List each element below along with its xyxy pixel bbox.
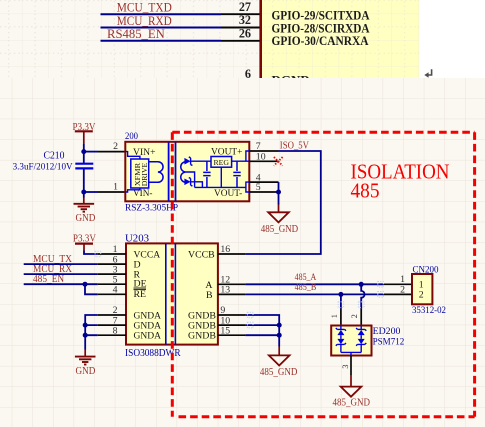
svg-text:VOUT-: VOUT- (214, 188, 242, 199)
TVS pin 3 line (350, 356, 352, 376)
net marker TVS pin1 end (338, 302, 344, 308)
TVS diode ED200 body (331, 326, 371, 356)
svg-text:10: 10 (256, 152, 266, 163)
svg-text:REG: REG (214, 158, 230, 167)
no-ERC cross on pin 10 (274, 157, 283, 166)
svg-text:MCU_TXD: MCU_TXD (117, 0, 172, 14)
wire MCU_TXD (101, 13, 222, 15)
top sheet grid (0, 0, 419, 78)
pin 8 line GNDA (98, 334, 126, 336)
svg-text:1: 1 (113, 182, 118, 193)
ground GND (capacitor branch) (74, 192, 96, 224)
wire P3.3V to junction (83, 144, 85, 152)
white document page margin top-right (419, 0, 485, 78)
transformer core isolation lines (168, 142, 170, 201)
DC-DC converter U200 body (125, 142, 249, 202)
junction node GNDA pin8 (83, 333, 88, 338)
svg-text:4: 4 (113, 285, 118, 296)
svg-text:PSM712: PSM712 (373, 336, 405, 347)
pin 15 line GNDB (218, 334, 246, 336)
pin 32 line (221, 27, 260, 29)
svg-text:RSZ-3.305HP: RSZ-3.305HP (125, 203, 179, 214)
svg-text:GND: GND (76, 213, 96, 224)
rectifier diode D2 (184, 178, 192, 187)
pin 6 line D (98, 263, 126, 265)
wire GNDB bus (245, 315, 279, 347)
wire MCU_RXD (101, 27, 222, 29)
U203 body (126, 243, 218, 344)
svg-text:GND: GND (76, 366, 96, 377)
svg-text:GPIO-30/CANRXA: GPIO-30/CANRXA (272, 33, 370, 48)
MCU IC left border (259, 0, 262, 78)
MCU IC yellow body fragment (262, 0, 419, 78)
power port P3.3V (capacitor branch) (73, 122, 96, 144)
transformer secondary winding (181, 162, 186, 183)
TVS internal zener pair left (336, 326, 346, 353)
svg-text:485_GND: 485_GND (260, 367, 298, 378)
svg-text:GNDB: GNDB (188, 331, 216, 342)
svg-text:35312-02: 35312-02 (412, 305, 446, 316)
pin 16 line VCCB (218, 253, 246, 255)
TVS pin 2 line (360, 309, 362, 326)
svg-text:26: 26 (239, 26, 251, 40)
junction node 485_EN split (83, 282, 88, 287)
svg-text:200: 200 (125, 131, 138, 141)
power port 485_GND (GNDB) (260, 347, 298, 379)
pin 7 line VOUT+ (249, 150, 278, 152)
wire down to 485_GND (278, 192, 280, 205)
pin 13 line B (218, 293, 246, 295)
svg-text:VCCB: VCCB (188, 250, 215, 261)
TVS internal bus (341, 352, 361, 355)
svg-text:C210: C210 (44, 151, 65, 162)
capacitor C210 (13, 151, 94, 192)
wire MCU_TX (24, 263, 98, 265)
svg-text:15: 15 (220, 325, 230, 336)
svg-text:DRIVE: DRIVE (140, 162, 149, 186)
pin 4 line VOUT- (249, 181, 278, 183)
paragraph return mark (428, 69, 432, 75)
net marker U203 pin1 end (95, 251, 101, 257)
pin 10 line GNDB (218, 324, 246, 326)
svg-text:13: 13 (220, 285, 230, 296)
svg-text:3: 3 (341, 365, 350, 369)
pin 1 line DCDC (98, 191, 125, 193)
svg-text:1: 1 (330, 314, 339, 318)
wire MCU_RX (24, 273, 98, 275)
pin 12 line A (218, 283, 246, 285)
wire junction to DCDC pin 1 (84, 191, 98, 193)
internal filter cap 2 (233, 161, 240, 187)
wire 485_A (245, 283, 383, 285)
REG block (211, 157, 232, 168)
internal filter cap 1 (203, 161, 210, 187)
svg-text:485: 485 (351, 181, 380, 203)
wire GNDA down (84, 335, 86, 349)
pin 2 line GNDA (98, 314, 126, 316)
pin 7 line GNDA (98, 324, 126, 326)
TVS pin 1 line (340, 309, 342, 326)
svg-text:3.3uF/2012/10V: 3.3uF/2012/10V (13, 161, 73, 172)
wire A down with hop over B (361, 284, 364, 308)
pin 1 line VCCA (98, 253, 126, 255)
svg-text:2: 2 (400, 284, 405, 295)
power port P3.3V (U203) (73, 234, 96, 251)
svg-text:485_GND: 485_GND (261, 224, 299, 235)
svg-text:8: 8 (113, 325, 118, 336)
svg-text:B: B (206, 290, 213, 301)
svg-text:485_EN: 485_EN (33, 274, 65, 285)
transformer primary winding (149, 162, 163, 183)
pin 5 line DE (98, 283, 126, 285)
svg-text:RS485_EN: RS485_EN (107, 27, 165, 41)
U203 isolation barrier lines (165, 243, 167, 344)
junction node pin5 (276, 190, 281, 195)
svg-text:2: 2 (113, 141, 118, 152)
svg-text:2: 2 (419, 289, 424, 300)
svg-text:CN200: CN200 (413, 264, 439, 275)
power port 485_GND (TVS) (333, 376, 371, 409)
net marker TVS pin2 end (358, 302, 364, 308)
isolation boundary dashed box (172, 132, 474, 417)
junction node A branch (359, 282, 364, 287)
svg-text:27: 27 (239, 0, 251, 14)
pin 9 line GNDB (218, 314, 246, 316)
wire 485_B (245, 293, 383, 295)
DCDC internal wiring VIN side (125, 152, 140, 192)
wire junction to DCDC pin 2 (84, 151, 98, 153)
net marker CN200 pin2 end (378, 292, 384, 298)
DCDC internal output rails (186, 151, 249, 192)
junction node B branch (338, 292, 343, 297)
CN200 pin 2 line (383, 293, 412, 295)
pin 4 line RE (98, 293, 126, 295)
junction node GNDB pin10 (277, 323, 282, 328)
wire GNDA bus (85, 315, 98, 335)
wire B down (340, 294, 342, 308)
rectifier diode D1 (184, 157, 192, 166)
wire pin4 to pin5 junction (278, 182, 280, 192)
svg-text:ED200: ED200 (373, 326, 401, 337)
svg-text:1: 1 (400, 274, 405, 285)
svg-text:2: 2 (350, 314, 359, 318)
pin 5 line (249, 191, 278, 193)
junction node GNDA pin7 (83, 323, 88, 328)
wire RS485_EN (101, 40, 222, 42)
junction node at pin2 branch (81, 149, 86, 154)
wire ISO_5V to VCCB (245, 151, 320, 254)
wire branch to RE (85, 284, 98, 294)
svg-text:ISO_5V: ISO_5V (280, 141, 310, 152)
junction node GNDB pin15 (277, 333, 282, 338)
wire 485_EN (24, 283, 98, 285)
pin 10 line (249, 160, 278, 162)
connector CN200 body (412, 274, 432, 304)
XFMR DRIVE block (131, 159, 149, 188)
net marker GNDB pin9 end (247, 312, 253, 318)
svg-text:RE: RE (134, 289, 147, 300)
power port 485_GND (DCDC output) (261, 205, 299, 236)
svg-text:GNDA: GNDA (134, 331, 162, 342)
wire P3.3V to pin 1 (84, 251, 98, 255)
pin 2 line DCDC (98, 151, 125, 153)
pin 27 line (221, 13, 260, 15)
svg-text:MCU_RXD: MCU_RXD (117, 14, 172, 28)
junction node at pin1 branch (81, 190, 86, 195)
CN200 pin 1 line (383, 283, 412, 285)
pin 26 line (221, 40, 260, 42)
pin 3 line R (98, 273, 126, 275)
svg-text:32: 32 (239, 13, 251, 27)
TVS internal zener pair right (356, 326, 366, 353)
ground GND (U203 GNDA) (75, 350, 96, 378)
net marker CN200 pin1 end (378, 281, 384, 287)
net marker GNDB pin10 end (247, 322, 253, 328)
svg-text:485_GND: 485_GND (333, 398, 371, 409)
svg-text:485_B: 485_B (295, 282, 317, 293)
svg-text:16: 16 (220, 244, 230, 255)
svg-text:5: 5 (256, 182, 261, 193)
svg-text:U203: U203 (125, 233, 149, 244)
